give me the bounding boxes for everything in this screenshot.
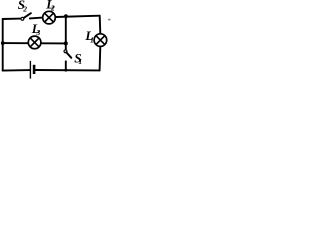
switch S2 lever (24, 13, 31, 18)
battery long plate (+) (29, 61, 31, 79)
wire: bottom segment from battery to left corner (3, 69, 30, 72)
lamp L3 circle (28, 36, 41, 49)
lamp L3 X (30, 38, 39, 47)
lamp L2 circle (43, 11, 56, 24)
svg-text:L2: L2 (45, 0, 55, 12)
wire: center vertical branch lower (below switch S1 to bottom wire) (65, 61, 67, 70)
stray mark right edge (108, 19, 110, 21)
switch S1 lever (66, 52, 71, 58)
wire: right vertical frame upper part to lamp L1 (99, 16, 102, 34)
switch S1 contact circle (64, 50, 67, 53)
lamp L1 circle (94, 34, 107, 47)
wire: left vertical frame (2, 19, 4, 71)
lamp L1 X (96, 36, 105, 45)
wire: top-left segment from left frame corner to switch S2 (3, 18, 22, 20)
node: junction dot top T (center branch on top wire) (64, 14, 68, 18)
wire: top segment from lamp L2 to top-right corner (56, 16, 100, 17)
switch S2 contact circle (21, 17, 24, 20)
battery short plate (-) (33, 65, 36, 74)
wire: center vertical branch upper (top wire to middle junction) (65, 16, 67, 50)
svg-text:L1: L1 (84, 28, 94, 44)
wire: bottom segment from right corner to battery (36, 69, 100, 71)
lamp L2 X (45, 13, 54, 22)
wire: right vertical frame lower part from lamp L1 to bottom corner (99, 47, 102, 71)
svg-text:L3: L3 (31, 21, 41, 37)
node: junction dot middle left (middle wire on left frame) (1, 41, 5, 45)
node: junction dot bottom (branch on bottom wire) (64, 69, 67, 72)
wire: top segment from switch S2 to lamp L2 (30, 17, 43, 20)
svg-text:S1: S1 (74, 50, 82, 66)
wire: middle horizontal with lamp L3 (3, 42, 66, 44)
node: junction dot middle center (middle wire on branch) (64, 41, 68, 45)
